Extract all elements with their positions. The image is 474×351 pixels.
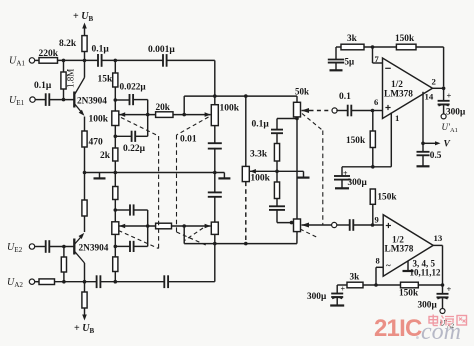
svg-text:0.5: 0.5 bbox=[430, 151, 442, 161]
node 0.022u row ch2 bbox=[114, 245, 118, 249]
svg-text:0.22μ: 0.22μ bbox=[123, 144, 146, 154]
capacitor 0.1u UE1 bbox=[45, 93, 47, 106]
watermark dianyuan glyphs bbox=[429, 317, 438, 324]
svg-text:3k: 3k bbox=[347, 34, 358, 44]
resistor 3k amp1 bbox=[341, 44, 364, 50]
capacitor 300u out2 bbox=[437, 293, 449, 295]
wire corner up to mid pot ch2 bbox=[214, 234, 216, 281]
svg-text:50k: 50k bbox=[295, 87, 309, 97]
node ch2 chain bottom bbox=[114, 280, 118, 284]
svg-text:0.1μ: 0.1μ bbox=[92, 45, 110, 55]
svg-text:150k: 150k bbox=[346, 136, 366, 146]
wire pin7 bbox=[372, 47, 374, 63]
resistor 3k amp2 bbox=[347, 282, 363, 288]
wire output amp1 bbox=[433, 87, 444, 89]
resistor 15k ch2 bbox=[114, 173, 116, 187]
node 0.022u row bbox=[114, 98, 118, 102]
svg-text:+: + bbox=[447, 90, 452, 100]
gang dashes mid pots bbox=[177, 117, 209, 135]
svg-text:300μ: 300μ bbox=[418, 301, 438, 311]
svg-text:0.01: 0.01 bbox=[180, 135, 197, 145]
wiper arrow treble ch2 bbox=[205, 224, 211, 229]
resistor 150k feedback amp1 bbox=[396, 44, 416, 50]
ground right bbox=[223, 173, 225, 179]
ground 0.5 cap bbox=[417, 165, 430, 167]
resistor 3.3k ch2 bbox=[276, 171, 278, 182]
ground balance wiper bbox=[303, 171, 305, 177]
transistor Q2 2N3904 bbox=[73, 239, 75, 255]
svg-text:6: 6 bbox=[374, 97, 378, 107]
capacitor 0.01 ch1 bbox=[214, 126, 216, 144]
wire to nodes UA2 row bbox=[55, 281, 97, 283]
wire to corner ch2 bbox=[168, 281, 215, 283]
svg-text:150k: 150k bbox=[395, 34, 415, 44]
svg-text:300μ: 300μ bbox=[348, 178, 368, 188]
svg-text:20k: 20k bbox=[156, 103, 171, 113]
svg-text:15k: 15k bbox=[98, 75, 114, 85]
wire to ch2 chain node bbox=[100, 281, 164, 283]
node bus drop bbox=[182, 113, 186, 117]
capacitor 0.22u ch2 bbox=[115, 209, 130, 211]
wire 220k to nodes bbox=[58, 59, 99, 61]
capacitor 0.001u bbox=[162, 54, 164, 67]
wire ground bus bbox=[85, 172, 225, 174]
resistor UA2 input bbox=[39, 279, 55, 285]
svg-text:LM378: LM378 bbox=[384, 90, 413, 100]
arrow +V bbox=[423, 142, 438, 144]
svg-text:150k: 150k bbox=[377, 193, 397, 203]
svg-text:100k: 100k bbox=[89, 115, 109, 125]
node pin6 bbox=[371, 109, 375, 113]
svg-text:100k: 100k bbox=[220, 104, 240, 114]
svg-text:+: + bbox=[447, 284, 452, 294]
wire 20k to mid pot bbox=[173, 114, 211, 116]
capacitor 300u mid bbox=[342, 166, 373, 168]
wire 8.2k to node bbox=[84, 52, 86, 61]
op-amp U2 1/2 LM378 bbox=[383, 215, 433, 277]
svg-text:U′A1: U′A1 bbox=[442, 122, 458, 134]
resistor 470 bbox=[84, 117, 86, 132]
svg-text:2N3904: 2N3904 bbox=[77, 96, 107, 106]
svg-text:1: 1 bbox=[395, 113, 399, 123]
svg-text:0.022μ: 0.022μ bbox=[120, 83, 147, 93]
wire cap to base Q2 bbox=[49, 246, 74, 248]
node 0.22u row ch2 bbox=[114, 208, 118, 212]
node output amp1 bbox=[442, 87, 446, 91]
node wiper join ch2 bbox=[146, 224, 150, 228]
wire bus ch1 bbox=[184, 95, 297, 97]
capacitor 0.022u row bbox=[115, 99, 129, 101]
wire to mid pot ch2 bbox=[172, 225, 211, 227]
svg-text:0.1μ: 0.1μ bbox=[252, 120, 270, 130]
resistor tail to UB bottom bbox=[84, 282, 86, 292]
connector circle ch2 bbox=[332, 222, 337, 227]
capacitor 300u bottom left bbox=[337, 284, 347, 286]
svg-text:UA2: UA2 bbox=[7, 277, 23, 289]
svg-text:470: 470 bbox=[89, 138, 104, 148]
resistor 20k bbox=[156, 112, 173, 118]
wire output amp2 bbox=[433, 244, 442, 246]
wire 0.001u to corner bbox=[167, 59, 215, 61]
capacitor 0.022u ch2 row bbox=[115, 245, 130, 247]
gang dashes volume bbox=[302, 114, 323, 131]
resistor 150k feedback amp2 bbox=[401, 282, 419, 288]
capacitor 5u bias bbox=[336, 46, 341, 48]
svg-text:10,11,12: 10,11,12 bbox=[410, 268, 442, 278]
svg-text:0.001μ: 0.001μ bbox=[148, 45, 175, 55]
resistor R 8.2k bbox=[82, 36, 87, 52]
svg-text:0.1μ: 0.1μ bbox=[34, 81, 52, 91]
node 15k chain top bbox=[114, 59, 118, 63]
svg-text:220k: 220k bbox=[39, 49, 59, 59]
connector circle ch1 bbox=[332, 108, 337, 113]
node pin8 row bbox=[374, 283, 378, 287]
output terminal UA1 prime bbox=[441, 114, 446, 119]
svg-text:2k: 2k bbox=[100, 151, 111, 161]
wire cap to 0.001u bbox=[102, 59, 163, 61]
node base Q2 bbox=[62, 245, 66, 249]
svg-text:150k: 150k bbox=[399, 289, 419, 299]
svg-text:UA1: UA1 bbox=[9, 56, 25, 68]
resistor 3.3k ch1 bbox=[276, 133, 278, 143]
wiper arrow 100k bass ch1 bbox=[119, 112, 125, 117]
wiper arrow bass ch2 bbox=[119, 224, 125, 229]
svg-text:2: 2 bbox=[432, 77, 437, 87]
capacitor 0.1u top bbox=[97, 54, 99, 67]
svg-text:UE1: UE1 bbox=[9, 95, 25, 107]
wire 150k to output bbox=[416, 46, 444, 48]
node 0.22u row bbox=[114, 135, 118, 139]
svg-text:9: 9 bbox=[375, 215, 379, 225]
capacitor UE2 input bbox=[45, 240, 47, 253]
potentiometer 100k treble ch2 bbox=[211, 222, 218, 234]
wiper arrow balance bbox=[250, 169, 256, 174]
wiper arrow 100k treble ch1 bbox=[205, 112, 211, 117]
resistor 1.8M bbox=[63, 60, 65, 72]
ground left bbox=[99, 173, 101, 179]
node V supply bbox=[421, 142, 425, 146]
svg-text:+ UB: + UB bbox=[73, 11, 93, 23]
svg-text:14: 14 bbox=[425, 92, 434, 102]
resistor 2k bbox=[114, 126, 116, 149]
svg-text:+: + bbox=[341, 285, 346, 294]
wiper arrow 50k ch2 bbox=[302, 223, 310, 228]
resistor bias Q2 bbox=[63, 247, 65, 258]
node collector Q1 bbox=[83, 59, 87, 63]
potentiometer 100k bass ch1 bbox=[112, 111, 119, 126]
resistor 150k mid B bbox=[370, 189, 375, 204]
svg-text:13: 13 bbox=[434, 233, 443, 243]
potentiometer 50k volume ch2 bbox=[294, 219, 301, 232]
wire pin8 bbox=[376, 266, 383, 268]
gang dashes left pots bbox=[121, 118, 159, 137]
node mid junction bbox=[371, 165, 375, 169]
op-amp U1 1/2 LM378 bbox=[383, 58, 433, 119]
svg-text:~: ~ bbox=[386, 261, 391, 271]
potentiometer 100k bass ch2 bbox=[112, 222, 119, 235]
resistor 150k mid A bbox=[372, 111, 374, 132]
resistor 15k bbox=[114, 60, 116, 73]
svg-text:2N3904: 2N3904 bbox=[79, 243, 109, 253]
capacitor 0.1u mid ch2 bbox=[276, 199, 278, 207]
svg-text:1.8M: 1.8M bbox=[66, 69, 76, 88]
wiper arrow 50k ch1 bbox=[302, 108, 310, 113]
resistor 2k ch2 bbox=[114, 234, 116, 257]
svg-text:8.2k: 8.2k bbox=[59, 39, 77, 49]
capacitor 0.1u mid ch1 bbox=[277, 118, 297, 120]
node A bbox=[62, 59, 66, 63]
svg-text:3k: 3k bbox=[350, 273, 361, 283]
capacitor 0.22u row bbox=[115, 135, 131, 137]
potentiometer 50k volume ch1 bbox=[296, 96, 298, 102]
svg-text:V: V bbox=[444, 140, 451, 150]
capacitor UA2 row bbox=[96, 275, 98, 288]
wire UA2 bbox=[35, 281, 39, 283]
capacitor 0.01 ch2 bbox=[214, 173, 216, 193]
wire cap to base Q1 bbox=[49, 99, 74, 101]
node base Q1 bbox=[62, 98, 66, 102]
svg-text:+: + bbox=[343, 169, 348, 178]
node pin7 top bbox=[371, 45, 375, 49]
svg-text:UE2: UE2 bbox=[7, 242, 23, 254]
capacitor 0.5 bbox=[422, 143, 424, 152]
wire UE2 bbox=[35, 246, 46, 248]
potentiometer 100k balance bbox=[245, 96, 247, 166]
capacitor 0.001u ch2 bbox=[163, 275, 165, 288]
resistor 20k ch2 bbox=[156, 223, 172, 229]
wire UE1 to cap bbox=[35, 99, 46, 101]
capacitor ch2 to amp bbox=[337, 224, 350, 226]
wire bus ch2 bbox=[184, 243, 297, 245]
svg-text:300μ: 300μ bbox=[446, 108, 466, 118]
svg-text:0.1: 0.1 bbox=[339, 92, 351, 102]
node balance wiper bbox=[275, 170, 279, 174]
resistor 220k bbox=[39, 58, 58, 64]
capacitor 0.1 ch1 to amp bbox=[336, 110, 347, 112]
potentiometer 100k treble ch1 bbox=[214, 60, 216, 104]
svg-text:300μ: 300μ bbox=[307, 292, 327, 302]
resistor emitter ch2 bbox=[84, 173, 86, 201]
wire balance pot to bus ch2 dashed bbox=[245, 182, 247, 244]
node wiper L join bbox=[146, 113, 150, 117]
wire UA1 bbox=[35, 59, 39, 61]
node feedback amp2 bbox=[441, 283, 445, 287]
node pin9 bbox=[371, 223, 375, 227]
transistor Q1 2N3904 bbox=[73, 92, 75, 108]
ground pins 3,4,5,10,11,12 bbox=[407, 261, 409, 271]
svg-text:5μ: 5μ bbox=[345, 57, 355, 67]
output terminal UA2 prime bbox=[440, 309, 445, 314]
capacitor 300u out1 bbox=[438, 100, 450, 102]
svg-text:3.3k: 3.3k bbox=[250, 150, 268, 160]
svg-text:+ UB: + UB bbox=[74, 323, 94, 335]
svg-text:100k: 100k bbox=[250, 174, 270, 184]
svg-text:1/2: 1/2 bbox=[391, 80, 403, 90]
svg-text:LM378: LM378 bbox=[385, 245, 414, 255]
svg-text:8: 8 bbox=[376, 256, 380, 266]
